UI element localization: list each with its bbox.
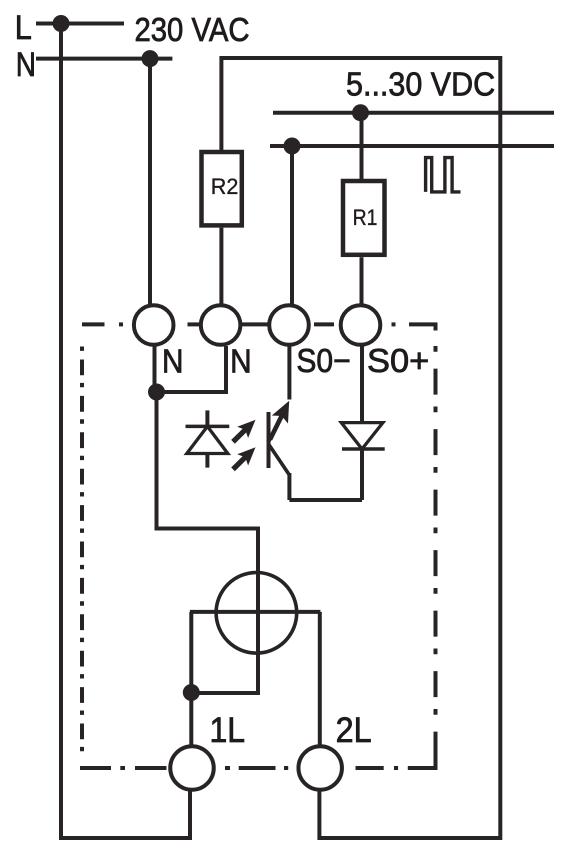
dash-dot enclosure border: right side bbox=[434, 346, 438, 768]
wire VDC line 2 bbox=[270, 144, 554, 148]
optocoupler LED lead bottom bbox=[205, 454, 209, 468]
wire junction down jog right to meter bbox=[157, 392, 259, 693]
wire VDC line 1 bbox=[273, 111, 554, 115]
svg-text:S0−: S0− bbox=[296, 343, 350, 380]
dash-dot enclosure border: top side bbox=[82, 324, 436, 330]
emitter diagonal bbox=[269, 444, 290, 475]
LED emission arrow 2 bbox=[231, 447, 255, 471]
emitter lead down bbox=[287, 473, 291, 500]
junction dot VDC2 bbox=[284, 138, 301, 155]
wire S0- column from dot to terminal bbox=[290, 146, 294, 305]
terminal circle N1 bbox=[134, 305, 174, 345]
wire diode down bbox=[360, 449, 364, 500]
wire junction horizontal to N2 lead bbox=[157, 346, 227, 392]
wire N vertical to terminal N bbox=[148, 59, 152, 305]
junction dot N internal bbox=[148, 384, 165, 401]
terminal circle 1L bbox=[170, 746, 214, 790]
wire N1 terminal down to junction bbox=[153, 346, 157, 392]
LED emission arrow 1 bbox=[231, 420, 255, 444]
wire transistor to diode bottom bbox=[289, 498, 362, 502]
wire horizontal through meter bbox=[190, 610, 321, 614]
optocoupler LED cathode bar bbox=[186, 425, 230, 429]
wire right vertical to 2L bbox=[318, 612, 322, 747]
phototransistor Q1 bbox=[268, 346, 290, 500]
base bar bbox=[267, 412, 271, 468]
svg-text:L: L bbox=[15, 9, 32, 47]
terminal circle 2L bbox=[298, 746, 342, 790]
svg-text:R2: R2 bbox=[211, 174, 239, 199]
terminal circle S0- bbox=[269, 305, 309, 345]
terminal circle S0+ bbox=[341, 305, 381, 345]
wire meter bottom horizontal bbox=[191, 691, 260, 695]
diode triangle bbox=[341, 423, 383, 449]
wire L vertical down, bottom to 1L bbox=[61, 22, 190, 838]
svg-text:N: N bbox=[16, 46, 36, 84]
wire left vertical to 1L bbox=[189, 612, 193, 747]
svg-text:2L: 2L bbox=[336, 710, 372, 750]
junction dot meter bottom bbox=[183, 684, 200, 701]
svg-text:N: N bbox=[162, 344, 184, 381]
dash-dot enclosure border: bottom side bbox=[80, 751, 436, 768]
junction dot VDC1 bbox=[352, 104, 369, 121]
pulse waveform icon bbox=[426, 158, 461, 192]
meter M1 circle bbox=[216, 573, 297, 654]
resistor R2 bbox=[202, 152, 242, 225]
wire R2 bottom lead bbox=[219, 228, 223, 305]
diode cathode bar bbox=[342, 447, 385, 451]
svg-text:S0+: S0+ bbox=[367, 343, 429, 380]
wire top horizontal, right vertical down to 2L bbox=[221, 58, 500, 838]
wire N horizontal bbox=[36, 57, 172, 61]
junction dot on L bbox=[53, 15, 70, 32]
wire S0- terminal down bbox=[287, 346, 291, 400]
wire R1 top lead bbox=[360, 113, 364, 179]
wire R1 bottom lead bbox=[360, 257, 364, 305]
wire S0+ terminal down bbox=[360, 346, 364, 424]
svg-text:230 VAC: 230 VAC bbox=[135, 11, 250, 48]
resistor R1 bbox=[343, 181, 385, 255]
optocoupler LED lead top bbox=[205, 410, 209, 426]
terminal circle N2 bbox=[201, 305, 241, 345]
svg-text:1L: 1L bbox=[210, 710, 246, 750]
optocoupler LED triangle bbox=[187, 426, 228, 453]
dash-dot enclosure border: left side bbox=[80, 347, 84, 759]
junction dot on N bbox=[142, 50, 159, 67]
wire L horizontal bbox=[36, 22, 124, 26]
diode D1 under S0+ bbox=[341, 346, 384, 500]
svg-text:5...30 VDC: 5...30 VDC bbox=[346, 66, 495, 103]
svg-text:N: N bbox=[230, 344, 252, 381]
collector diagonal with arrow bbox=[269, 413, 284, 442]
svg-text:R1: R1 bbox=[353, 205, 378, 230]
